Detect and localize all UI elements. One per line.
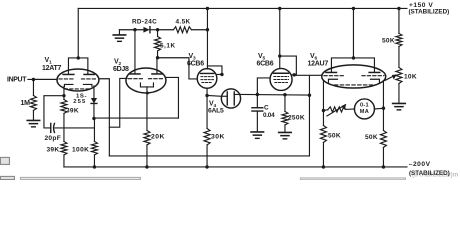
label C — [264, 105, 269, 112]
node V5 plate junction — [278, 54, 281, 57]
node junction top rail to V6 plates — [352, 7, 355, 10]
node meter right junction — [382, 107, 385, 110]
resistor R1 1M from input to ground — [30, 79, 36, 120]
svg-text:12AU7: 12AU7 — [307, 61, 328, 68]
label 6DJ8 — [113, 66, 129, 73]
wire V5 grid riser — [257, 78, 270, 95]
V6 right grid dashes — [362, 75, 384, 77]
wire 50K left to rail — [322, 142, 324, 167]
svg-text:50K: 50K — [382, 37, 395, 44]
diode D1 1S-255 from V1 cathode — [91, 86, 97, 119]
label 5.1K — [160, 42, 176, 49]
tube V1 envelope — [57, 69, 99, 91]
node input junction — [32, 78, 35, 81]
potentiometer zero-adjust — [328, 107, 346, 112]
tube V3 envelope — [197, 69, 217, 89]
svg-text:5,1K: 5,1K — [160, 42, 176, 49]
wire 250K bottom lead — [284, 125, 286, 132]
V2 right plate — [152, 73, 162, 75]
wire V6 plate bridge — [331, 58, 374, 72]
wire 20K to bottom rail — [146, 145, 148, 167]
wire 10K to ground — [398, 83, 400, 103]
wire V2 right plate lead — [156, 58, 158, 74]
V2 cathode — [140, 83, 153, 87]
V6 left cathode — [328, 79, 337, 82]
V1 bottom heater dashes — [64, 88, 91, 90]
wire V6 right lead — [382, 81, 384, 109]
wire V1 plate stem from top rail — [77, 8, 79, 58]
tube V2 envelope — [126, 68, 166, 93]
node junction top rail right T — [397, 7, 400, 10]
V4 right diode element — [234, 92, 240, 105]
ground below 10K — [393, 103, 406, 109]
svg-text:12AT7: 12AT7 — [42, 65, 62, 72]
resistor R6 5.1K — [155, 30, 161, 51]
label 50K right — [365, 134, 378, 141]
node 5.1K top junction — [156, 28, 159, 31]
node 250K junction — [283, 93, 286, 96]
svg-text:50K: 50K — [328, 132, 341, 139]
wire 30K to bottom rail — [206, 145, 208, 167]
node rail-20K — [145, 165, 148, 168]
V1 left cathode — [64, 84, 73, 86]
resistor R2 39K upper (V1 cathode) — [61, 99, 67, 113]
wire C bottom lead — [256, 111, 258, 131]
wire V5 screen into tube — [292, 74, 296, 76]
wire V5 plate stem — [279, 8, 281, 56]
wire 5.1K bottom to junction — [157, 51, 159, 58]
V6 right cathode — [370, 79, 379, 82]
10K wiper arrow — [385, 74, 397, 80]
label INPUT — [7, 77, 27, 84]
wire diode node to V2 right-grid bus — [94, 117, 179, 119]
V4 left diode element — [221, 92, 227, 105]
node 4.5K-rail junction — [206, 28, 209, 31]
resistor R7 20K — [144, 130, 150, 145]
svg-text:0-1: 0-1 — [360, 103, 369, 109]
label +150 V (STABILIZED) — [408, 2, 449, 15]
V6 left plate — [326, 71, 337, 73]
svg-text:C: C — [264, 105, 269, 112]
node V3 cathode junction — [205, 94, 208, 97]
svg-text:6CB6: 6CB6 — [187, 61, 204, 68]
V1 left grid dashes — [59, 78, 74, 80]
label 20pF — [44, 135, 61, 142]
wire input lead — [28, 78, 57, 80]
label V5 — [258, 53, 266, 62]
ground below 1M — [27, 120, 39, 126]
label 6AL5 — [208, 107, 224, 114]
wire V4 left diode lead — [207, 94, 221, 97]
label V1 — [44, 57, 52, 66]
svg-text:250K: 250K — [288, 114, 305, 121]
svg-text:INPUT: INPUT — [7, 77, 27, 84]
svg-text:6DJ8: 6DJ8 — [113, 66, 129, 73]
V6 bottom heater dashes — [334, 84, 375, 86]
label 50K left — [328, 132, 341, 139]
wire 39K lower to bottom rail — [63, 155, 65, 167]
label 250K — [288, 114, 305, 121]
svg-text:(STABILIZED)m: (STABILIZED)m — [412, 172, 459, 179]
wire V5 plate to V6 grid — [294, 74, 322, 76]
V1 right grid dashes — [81, 78, 97, 80]
wire bias line left with ground — [119, 30, 143, 34]
node V1 plate junction — [77, 56, 80, 59]
V5 inner dashes — [274, 76, 289, 82]
node rail-30K — [205, 165, 208, 168]
scan artifacts (decorative) — [412, 172, 459, 179]
svg-text:20K: 20K — [151, 133, 165, 140]
node feedback junction — [308, 94, 311, 97]
label 4.5K — [175, 19, 190, 26]
node pot left junction — [322, 109, 325, 112]
node junction top rail to V3 plate — [206, 7, 209, 10]
diode D2 RD-24C — [143, 27, 157, 33]
resistor R4 100K — [91, 141, 97, 155]
label 1M — [20, 100, 30, 107]
label 12AU7 — [307, 61, 328, 68]
wire feedback to V6 grid tap — [308, 76, 310, 96]
label 0.04 — [263, 112, 275, 119]
capacitor C1 20pF — [51, 123, 55, 132]
svg-text:20pF: 20pF — [44, 135, 61, 142]
svg-text:10K: 10K — [404, 73, 417, 80]
V2 right grid dashes — [148, 78, 164, 80]
resistor R8 30K — [204, 95, 210, 145]
svg-text:(STABILIZED): (STABILIZED) — [408, 9, 449, 16]
label 39K upper — [66, 107, 79, 114]
resistor R12 50K top right — [396, 33, 402, 46]
wire 100K top lead — [93, 118, 95, 141]
wire screen into tube — [216, 73, 222, 75]
label V6 — [310, 53, 318, 62]
label 20K — [151, 133, 165, 140]
wire right rail drop — [398, 8, 400, 33]
V6 left grid dashes — [324, 75, 345, 77]
wire V1 plate bridge bar — [68, 58, 87, 74]
label 10K — [404, 73, 417, 80]
V2 left grid dashes — [128, 78, 143, 80]
ground below 250K — [279, 132, 292, 138]
wire C top lead — [256, 94, 258, 107]
resistor R3 39K lower — [61, 141, 67, 155]
resistor R13 10K calibration — [396, 67, 402, 83]
capacitor C2 0.04 — [252, 108, 263, 111]
label V4 — [209, 100, 217, 109]
wire 100K bottom lead — [93, 155, 95, 167]
wire V6 left cathode lead — [322, 80, 324, 110]
node rail-100K — [93, 165, 96, 168]
V6 right plate — [369, 71, 380, 73]
ground below C — [251, 132, 264, 138]
resistor R5 4.5K — [173, 27, 191, 33]
wire 4.5K to V3 plate rail — [191, 29, 207, 31]
node V5 grid / C junction — [256, 93, 259, 96]
wire pot to meter — [346, 108, 355, 111]
pot wiper arrow — [327, 104, 346, 116]
label 50K top right — [382, 37, 395, 44]
wire 250K top lead — [284, 95, 286, 112]
V3 plate bar — [200, 72, 214, 74]
resistor R9 250K — [282, 111, 288, 125]
svg-text:100K: 100K — [72, 146, 89, 153]
label 6CB6 (V3) — [187, 61, 204, 68]
wire V2 left plate lead — [134, 30, 136, 74]
svg-text:255: 255 — [73, 99, 86, 105]
resistor R10 50K left — [320, 110, 326, 142]
meter M1 0-1 MA — [354, 99, 374, 119]
wire 20pF right plate to 100K top node — [55, 127, 94, 129]
label 39K lower — [46, 146, 59, 153]
wire 50K to 10K — [398, 46, 400, 67]
svg-text:39K: 39K — [46, 146, 59, 153]
wire V3 grid lead from 5.1K node — [158, 58, 198, 79]
wire V1 right grid to feedback bus — [99, 79, 109, 156]
node V5 screen junction — [293, 73, 296, 76]
wire V3 cathode lead — [206, 88, 208, 95]
svg-text:6AL5: 6AL5 — [208, 107, 224, 114]
tube V6 envelope — [322, 65, 386, 88]
resistor R11 50K right — [380, 108, 386, 147]
wire V1 grid wire into tube — [33, 78, 57, 80]
node V6 plate junction — [352, 56, 355, 59]
V1 left plate — [63, 73, 74, 75]
node diode-100K junction — [92, 117, 95, 120]
svg-text:MA: MA — [360, 109, 369, 115]
wire V5 plate into tube — [279, 56, 281, 68]
svg-text:4.5K: 4.5K — [175, 19, 190, 26]
tube V4 envelope — [221, 89, 240, 108]
node rail-50K left — [322, 165, 325, 168]
label 100K — [72, 146, 89, 153]
wire V2 cathode lead — [146, 87, 148, 131]
tube V5 envelope — [270, 68, 292, 90]
svg-text:RD-24C: RD-24C — [132, 19, 157, 26]
svg-text:30K: 30K — [211, 133, 225, 140]
label V2 — [114, 58, 122, 67]
node V2 left plate junction on bias line — [133, 28, 136, 31]
wire 50K right to rail — [382, 147, 384, 167]
node V2 cathode pin — [146, 91, 149, 94]
wire V2 right grid lead — [166, 77, 178, 118]
svg-text:50K: 50K — [365, 134, 378, 141]
wire cathode to 20pF branch — [44, 96, 64, 128]
label 6CB6 (V5) — [256, 61, 273, 68]
wire pot left end — [323, 109, 328, 112]
wire meter right lead — [374, 107, 383, 110]
wire V3 screen loop — [207, 66, 222, 75]
node cathode junction — [62, 94, 65, 97]
label RD-24C — [132, 19, 157, 26]
wire V6 plate stem — [352, 8, 354, 58]
node rail-50K right — [382, 165, 385, 168]
svg-text:–200V: –200V — [409, 161, 431, 168]
svg-text:1M: 1M — [20, 100, 30, 107]
wire V4 output bus — [240, 93, 309, 96]
V5 plate bar — [273, 72, 288, 74]
label V3 — [188, 53, 196, 62]
V3 inner dashes — [201, 77, 214, 83]
label 1S-255 — [73, 94, 87, 105]
wire V3 plate stem — [206, 8, 208, 68]
wire bias line to 4.5K — [158, 29, 174, 31]
V1 right cathode — [83, 84, 92, 86]
node junction top rail to V5 plate — [278, 7, 281, 10]
wire V5 screen loop — [280, 56, 297, 75]
node V2 right plate junction — [156, 56, 159, 59]
wire feedback riser — [308, 95, 310, 156]
wire V2 left grid drop — [109, 78, 127, 127]
label 30K — [211, 133, 225, 140]
label 12AT7 — [42, 65, 62, 72]
label -200V (STABILIZED) — [409, 161, 450, 177]
wire +150V top supply rail — [78, 7, 407, 9]
wire -200V bottom rail — [64, 166, 407, 168]
V2 left plate — [130, 73, 140, 75]
svg-text:0.04: 0.04 — [263, 112, 275, 119]
wire between 39K resistors — [63, 113, 65, 141]
ground on bias line — [113, 35, 125, 41]
V1 right plate — [84, 73, 94, 75]
svg-text:39K: 39K — [66, 107, 79, 114]
node V3 screen junction — [220, 73, 223, 76]
wire V1 left cathode lead — [63, 86, 65, 99]
wire feedback bottom bus — [109, 155, 309, 157]
svg-text:6CB6: 6CB6 — [256, 61, 273, 68]
